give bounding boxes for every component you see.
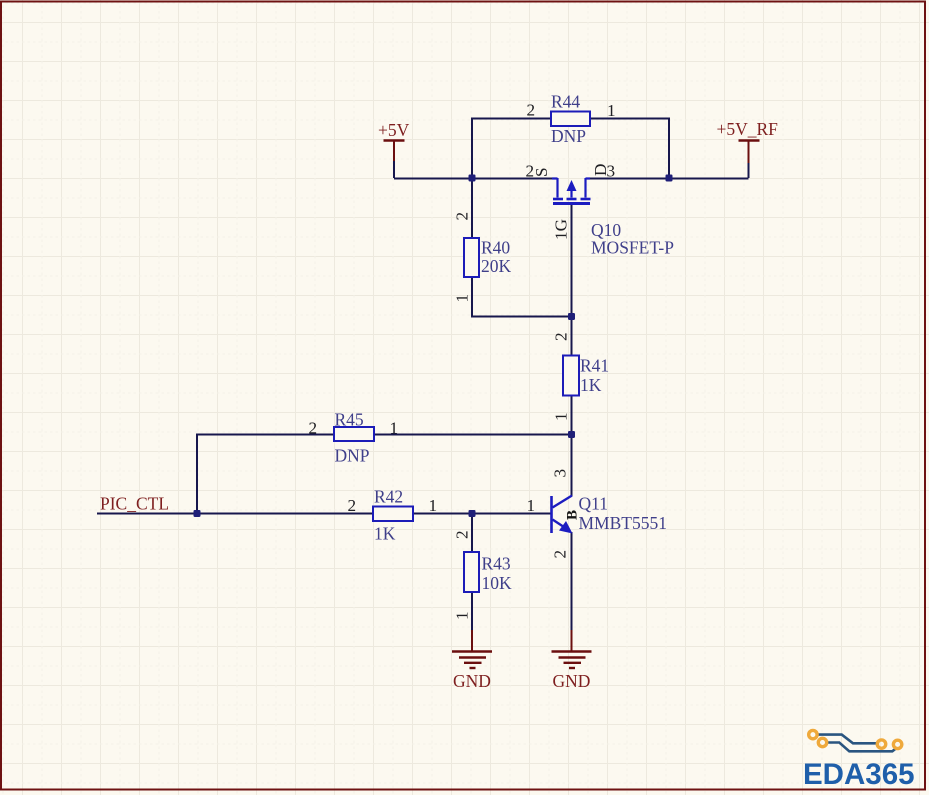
power symbol +5V_RF [739,141,760,164]
resistor R42 [348,487,438,544]
resistor R44 [527,92,616,147]
svg-text:+5V: +5V [378,120,410,140]
svg-text:3: 3 [607,162,616,181]
svg-text:2: 2 [348,496,357,515]
wire +5V stem lower [393,160,395,178]
wire Q11 collector [571,434,573,496]
svg-text:EDA365: EDA365 [803,758,915,791]
svg-text:Q11: Q11 [579,494,609,514]
svg-text:B: B [565,510,581,520]
junction node at 197,514 [194,510,201,517]
wire Q11 emitter to GND [571,532,573,646]
svg-text:1: 1 [527,496,536,515]
wire R44 right [590,119,669,179]
svg-text:1K: 1K [374,524,396,544]
wire main rail left [394,178,552,180]
wire main rail right [586,178,749,180]
transistor Q11 MMBT5551 [527,469,667,559]
svg-text:PIC_CTL: PIC_CTL [100,494,169,514]
svg-text:R45: R45 [335,410,364,430]
wire R41 bottom [571,395,573,435]
svg-text:1: 1 [607,101,616,120]
svg-text:1: 1 [453,294,472,303]
transistor Q10 MOSFET-P [526,162,675,258]
junction node at 472,178 [469,175,476,182]
svg-text:2: 2 [453,530,472,539]
ground GND right [552,630,592,691]
resistor R43 [453,530,513,620]
svg-text:DNP: DNP [335,446,370,466]
wire +5V_RF stem lower [748,162,750,178]
svg-text:2: 2 [551,550,570,559]
svg-text:1G: 1G [552,219,571,240]
wire R43 top [471,514,473,553]
svg-text:R41: R41 [580,356,609,376]
svg-text:1: 1 [453,611,472,620]
svg-text:1K: 1K [580,375,602,395]
svg-text:3: 3 [551,469,570,478]
wire gate [571,204,573,317]
svg-text:10K: 10K [482,573,513,593]
wire R42 right to base [413,513,551,515]
wire R40 top [471,178,473,238]
wire PIC_CTL [97,513,373,515]
junction node at 669,178 [666,175,673,182]
svg-text:GND: GND [553,671,591,691]
svg-text:1: 1 [390,419,399,438]
wire R45 right [374,434,572,436]
svg-text:1: 1 [552,412,571,421]
svg-text:MOSFET-P: MOSFET-P [591,238,674,258]
ground GND left [452,630,492,691]
junction node at 472,514 [469,510,476,517]
wire R43 bottom to GND [471,592,473,646]
EDA365 logo [803,730,915,791]
svg-text:GND: GND [453,671,491,691]
svg-text:1: 1 [429,496,438,515]
svg-text:2: 2 [453,212,472,221]
svg-text:2: 2 [309,419,318,438]
wire R44 left [472,119,551,179]
junction node at 571.5,434.5 [568,431,575,438]
resistor R45 [309,410,399,466]
wire R45 left [197,435,334,515]
resistor R40 [453,212,512,303]
svg-text:MMBT5551: MMBT5551 [579,513,667,533]
svg-text:R40: R40 [481,238,510,258]
svg-text:S: S [532,167,551,177]
junction node at 571.5,316.5 [568,313,575,320]
wire R41 top [571,317,573,356]
svg-text:20K: 20K [481,256,512,276]
svg-text:R42: R42 [374,487,403,507]
power symbol +5V [384,141,405,162]
resistor R41 [552,332,610,421]
svg-text:R44: R44 [551,92,580,112]
wire R40 bottom to gate node [472,277,572,317]
svg-text:2: 2 [527,101,536,120]
svg-text:2: 2 [552,332,571,341]
svg-text:R43: R43 [482,554,511,574]
svg-text:DNP: DNP [551,126,586,146]
svg-text:+5V_RF: +5V_RF [717,119,779,139]
